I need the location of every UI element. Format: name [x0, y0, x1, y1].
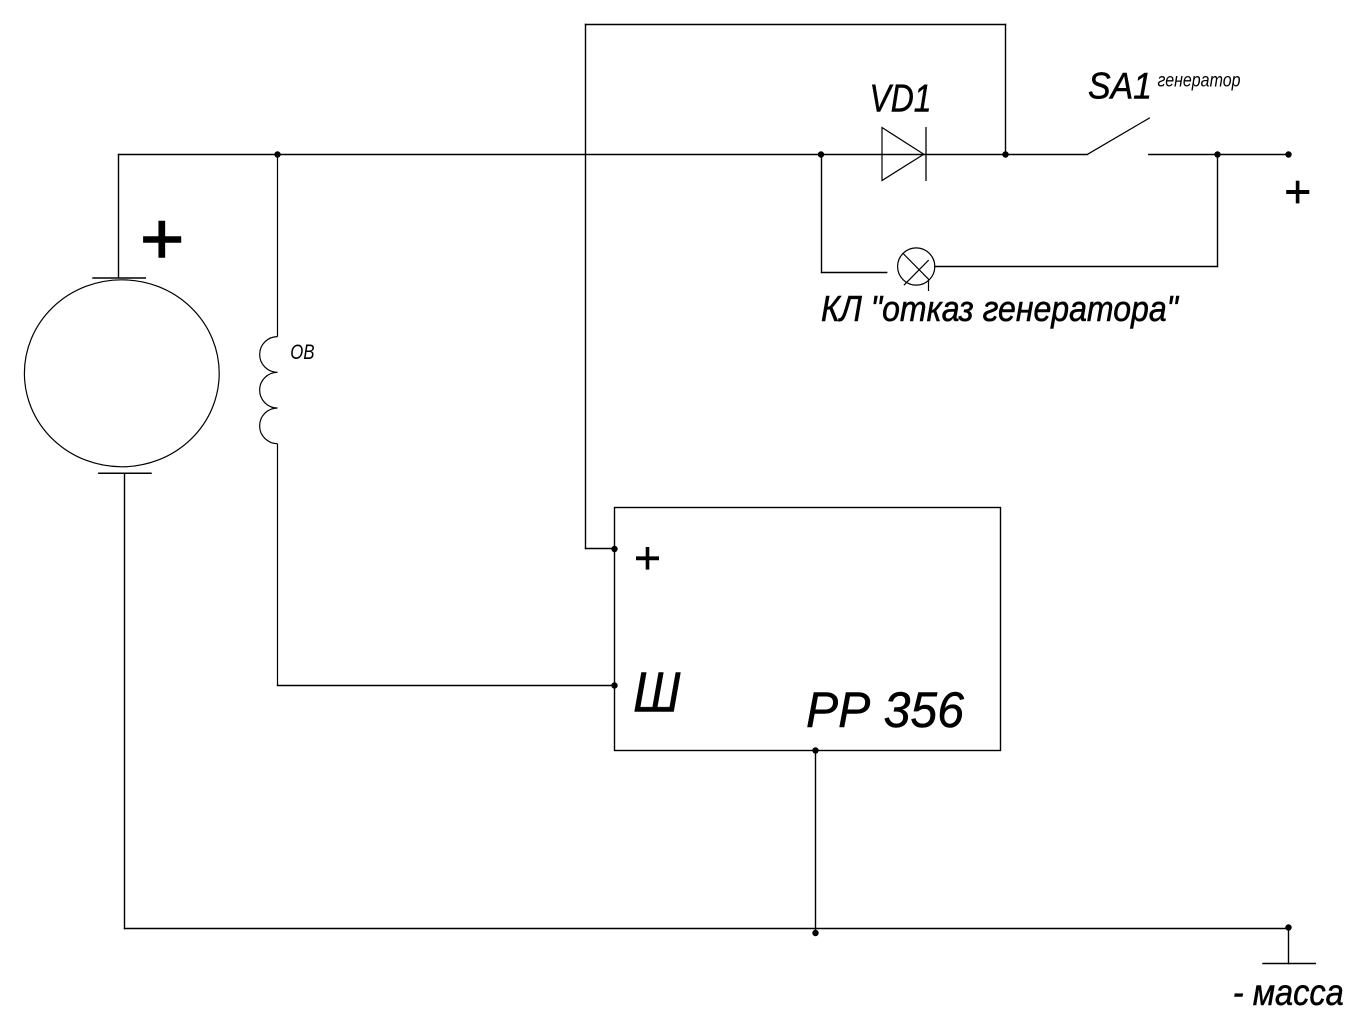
wire top rectangle right vertical — [1005, 25, 1007, 155]
wire generator plus lead vertical — [118, 155, 120, 278]
svg-text:SA1: SA1 — [1088, 64, 1152, 106]
svg-text:ОВ: ОВ — [290, 341, 314, 364]
wire lamp left lead — [822, 272, 887, 274]
wire regulator plus terminal lead — [586, 548, 615, 550]
svg-text:- масса: - масса — [1233, 972, 1344, 1013]
wire lamp branch vertical right — [1217, 155, 1219, 267]
lamp cross line A — [903, 254, 929, 281]
node main bus / lamp branch left — [818, 151, 824, 157]
wire regulator bottom lead — [815, 751, 817, 934]
ground bar — [1262, 963, 1316, 965]
lamp cross line B — [904, 260, 929, 285]
svg-text:генератор: генератор — [1158, 71, 1241, 92]
svg-text:КЛ "отказ генератора": КЛ "отказ генератора" — [821, 288, 1180, 329]
wire lamp right lead — [935, 266, 1218, 268]
node plus supply end — [1285, 151, 1291, 157]
wire top rectangle left vertical — [585, 25, 587, 549]
generator bottom brush bar — [98, 472, 152, 474]
switch SA1 blade — [1088, 118, 1150, 155]
wire field winding to Sh terminal horizontal — [278, 685, 615, 687]
wire switch to right plus terminal — [1149, 154, 1289, 156]
svg-text:Ш: Ш — [633, 660, 681, 723]
wire main horizontal bus — [119, 154, 1088, 156]
node regulator Sh terminal — [611, 682, 617, 688]
regulator PP356 box — [615, 508, 1001, 751]
svg-text:РР 356: РР 356 — [806, 682, 964, 738]
node regulator plus terminal — [611, 546, 617, 552]
junction node dots — [274, 151, 1291, 936]
node bottom bus / regulator lead — [812, 930, 818, 936]
node regulator bottom terminal — [812, 747, 818, 753]
generator top brush bar — [92, 277, 146, 279]
plus terminal symbol right — [1286, 181, 1309, 204]
wire ground stem — [1288, 929, 1290, 964]
diode VD1 — [882, 127, 926, 181]
wire top rectangle top side — [586, 24, 1006, 26]
generator plus polarity symbol — [143, 221, 181, 258]
lamp bottom tick — [928, 280, 930, 292]
wire generator minus lead vertical — [124, 473, 126, 928]
inductor OV field winding — [260, 155, 278, 686]
generator G armature circle — [24, 280, 219, 467]
wire lamp branch vertical left — [821, 155, 823, 273]
node ground branch — [1285, 924, 1291, 930]
lamp KL circle — [898, 248, 935, 291]
node main bus / field winding branch — [274, 151, 280, 157]
regulator plus terminal label — [636, 547, 659, 570]
node diode cathode / top rectangle — [1002, 151, 1008, 157]
wire bottom ground bus — [125, 928, 1289, 930]
svg-text:VD1: VD1 — [870, 77, 932, 120]
node switch right / lamp branch right — [1214, 151, 1220, 157]
